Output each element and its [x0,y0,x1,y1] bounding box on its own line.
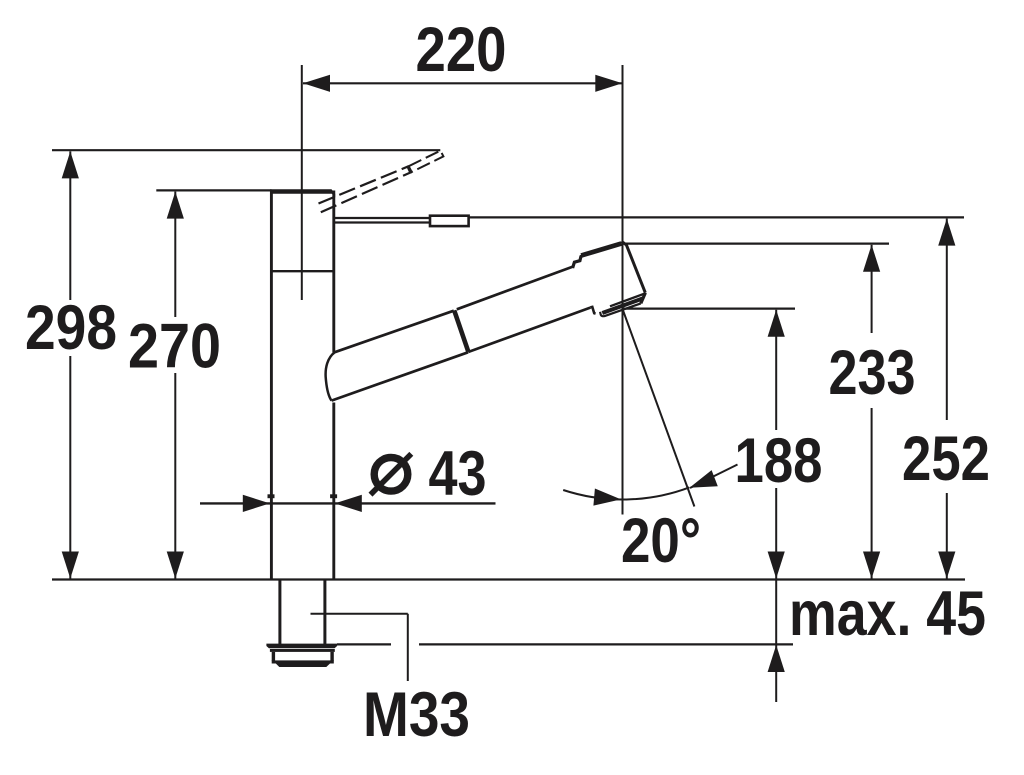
dimension 270 line upper [174,192,176,317]
max.45 lower line (right of leader gap) [419,643,793,645]
svg-text:270: 270 [128,312,221,382]
20deg arc left arrow [593,489,621,506]
dimension 252 bottom arrow [938,552,955,579]
lever arm bottom line [335,221,431,223]
diameter symbol [374,458,408,492]
dimension 252 line lower [946,493,948,579]
spout arm upper edge [335,311,454,353]
dimension 252 top arrow [938,219,955,246]
svg-text:188: 188 [735,426,823,496]
dimension 233 top arrow [863,245,880,272]
dimension dia43 left arrow [243,495,270,512]
aerator line upper [610,294,645,307]
dimension 270 line lower [174,373,176,579]
20deg leader tail [690,465,738,489]
svg-text:252: 252 [902,424,990,494]
shank right edge [323,581,326,645]
dimension max45 line between counter and lower line [775,580,777,645]
aerator outline lower [600,303,641,316]
shank flange [266,644,337,649]
dimension 270 bottom arrow [167,552,184,579]
max.45 lower line (left of leader gap) [337,643,391,645]
dimension max45 tail below [775,645,777,702]
wand lower edge notch [590,307,595,314]
dimension 298 bottom arrow [62,552,79,579]
head top band [581,244,621,256]
252 reference line (lever height) [469,216,964,218]
centerline faucet body [301,65,303,300]
dimension 298 line lower [69,356,71,579]
spout arm left cap curve [326,352,335,400]
dashed lever knob [409,151,444,172]
dashed lever shaft upper line [319,166,409,203]
dimension 298 top arrow [62,151,79,178]
svg-text:43: 43 [429,439,487,509]
20deg slanted line [623,310,695,507]
svg-text:298: 298 [25,293,117,363]
dashed lever joint tick [407,167,410,172]
dimension max45 up arrow [768,645,785,672]
head step left [573,255,583,268]
svg-text:220: 220 [416,15,507,85]
faucet body right edge lower [332,403,335,580]
M33 leader horizontal [311,613,408,615]
svg-text:max. 45: max. 45 [789,579,986,649]
spout arm lower edge [332,352,469,400]
shank bottom trapezoid [276,664,330,668]
aerator right cap [641,293,646,304]
svg-text:233: 233 [829,338,916,408]
dimension dia43 right arrow [335,495,362,512]
20deg arc [563,487,689,499]
faucet body seam line [273,270,334,272]
counter top line [52,578,965,580]
svg-text:20°: 20° [621,506,701,576]
dimension 233 line lower [871,408,873,579]
dashed lever shaft lower line [321,172,412,212]
centerline spray head / 220 right extension [622,65,624,515]
dimension 188 bottom arrow [768,552,785,579]
shank ring3 bottom bar [272,660,334,663]
shank ring3 outline [273,652,332,661]
head top right corner [621,241,645,292]
188 reference line (spray outlet) [623,308,795,310]
dimension 220 right arrow [595,75,622,92]
dimension 298 line upper [69,151,71,300]
aerator band main [602,298,643,313]
M33 leader vertical [407,614,409,681]
dimension 252 line upper [946,219,948,420]
faucet body top cap [270,189,335,197]
lever knob [430,216,469,226]
spout joint line [454,310,468,351]
faucet body right edge upper [332,191,335,353]
dimension 188 top arrow [768,310,785,337]
lever arm top line [335,217,431,219]
extension line 270 (body top, y=190) [156,189,271,191]
wand upper edge [457,267,573,310]
dimension dia43 line [200,502,496,504]
extension line top (298 reference, y=150) [52,149,440,151]
dia43 tick left [268,494,275,498]
dimension 220 line [303,82,622,84]
dimension 188 line lower [775,488,777,579]
dia43 tick right [330,494,337,498]
20deg arc right arrow [690,470,718,488]
233 reference line (head top) [626,243,889,245]
shank ring2 [270,649,335,652]
dimension 188 line upper [775,310,777,430]
dimension 233 bottom arrow [863,552,880,579]
dimension 220 left arrow [303,75,330,92]
dimension 270 top arrow [167,192,184,219]
svg-text:M33: M33 [363,680,470,750]
dimension 233 line upper [871,245,873,333]
shank left edge [278,581,281,645]
wand lower edge [468,308,590,352]
faucet body left edge [270,191,273,580]
